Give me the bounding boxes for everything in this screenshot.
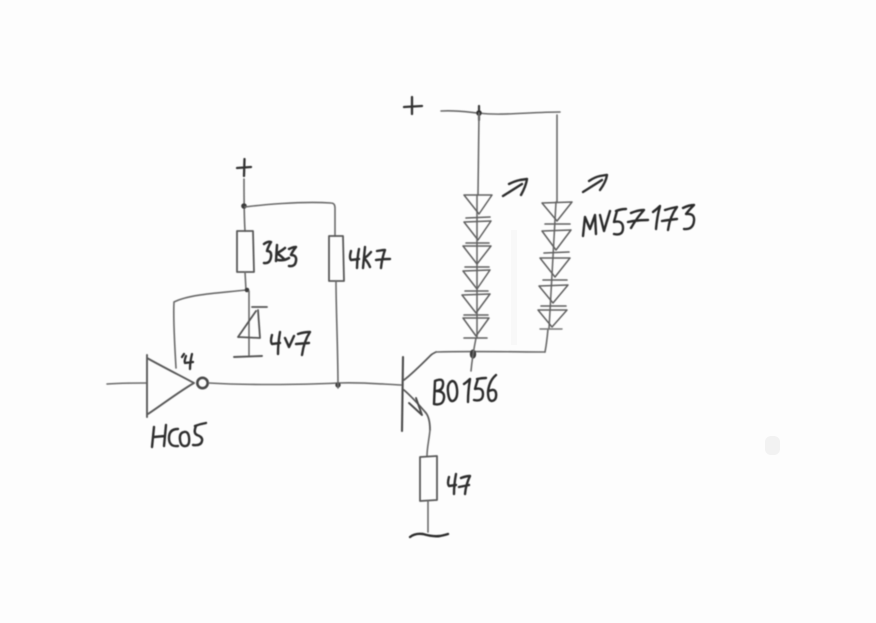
LED D4 <box>463 246 491 264</box>
ground <box>410 534 448 537</box>
LED string 2 wire <box>545 115 557 352</box>
pin label 4 <box>182 354 193 369</box>
wire R3 to ground <box>427 501 429 532</box>
LED D10 <box>540 258 570 277</box>
scan smudge <box>765 436 780 455</box>
resistor R1 3k3 <box>237 231 254 272</box>
LED D12 <box>538 310 567 327</box>
node junction 4k7/output <box>335 382 340 387</box>
node branch <box>241 203 247 209</box>
wire inverter output to transistor base <box>209 383 401 385</box>
wire emitter to R3 <box>427 430 430 456</box>
node LED1 bottom <box>470 349 476 358</box>
arrow LED indicator 2 <box>583 175 607 192</box>
LED D7 <box>463 318 489 336</box>
emitter stroke with arrow <box>404 390 430 430</box>
node zener junction <box>245 288 250 293</box>
LED D11 <box>539 285 568 303</box>
label HC05 <box>152 425 166 447</box>
wire input to inverter <box>107 383 147 384</box>
power + top <box>404 97 422 114</box>
label 47 <box>448 474 470 494</box>
transistor Q1 BD156 base bar <box>402 357 403 431</box>
scan band artifact <box>511 230 517 345</box>
arrow LED indicator 1 <box>503 179 527 196</box>
wire collector to LED bottoms <box>436 351 545 353</box>
node rail/LED1 <box>478 106 480 120</box>
wire branch to 4k7 top <box>245 202 335 236</box>
LED D6 <box>462 294 490 313</box>
LED D2 <box>464 195 492 214</box>
label BD156 <box>434 380 444 405</box>
ground stub below zener <box>234 356 262 357</box>
wire + to R1 <box>244 179 245 231</box>
resistor R2 4k7 <box>329 236 344 281</box>
label 4V7 <box>271 332 280 354</box>
label 4k7 <box>350 247 390 268</box>
LED string 1 wire top <box>471 113 479 371</box>
label MV57173 <box>583 215 596 236</box>
LED D5 <box>463 270 490 289</box>
LED D9 <box>542 230 571 250</box>
resistor R3 47 <box>420 456 437 501</box>
wire R2 to output wire <box>336 281 338 388</box>
LED D8 <box>542 202 572 221</box>
wire R1 to node <box>245 272 246 290</box>
LED D3 <box>464 221 491 240</box>
inverter U1 HC05 <box>147 355 194 417</box>
zener diode D1 4V7 <box>248 291 250 355</box>
power + left <box>237 159 251 176</box>
wire feedback zener junction to inverter <box>174 290 246 368</box>
collector stroke <box>404 352 436 380</box>
label 3k3 <box>264 242 271 263</box>
wire + rail <box>441 111 560 114</box>
